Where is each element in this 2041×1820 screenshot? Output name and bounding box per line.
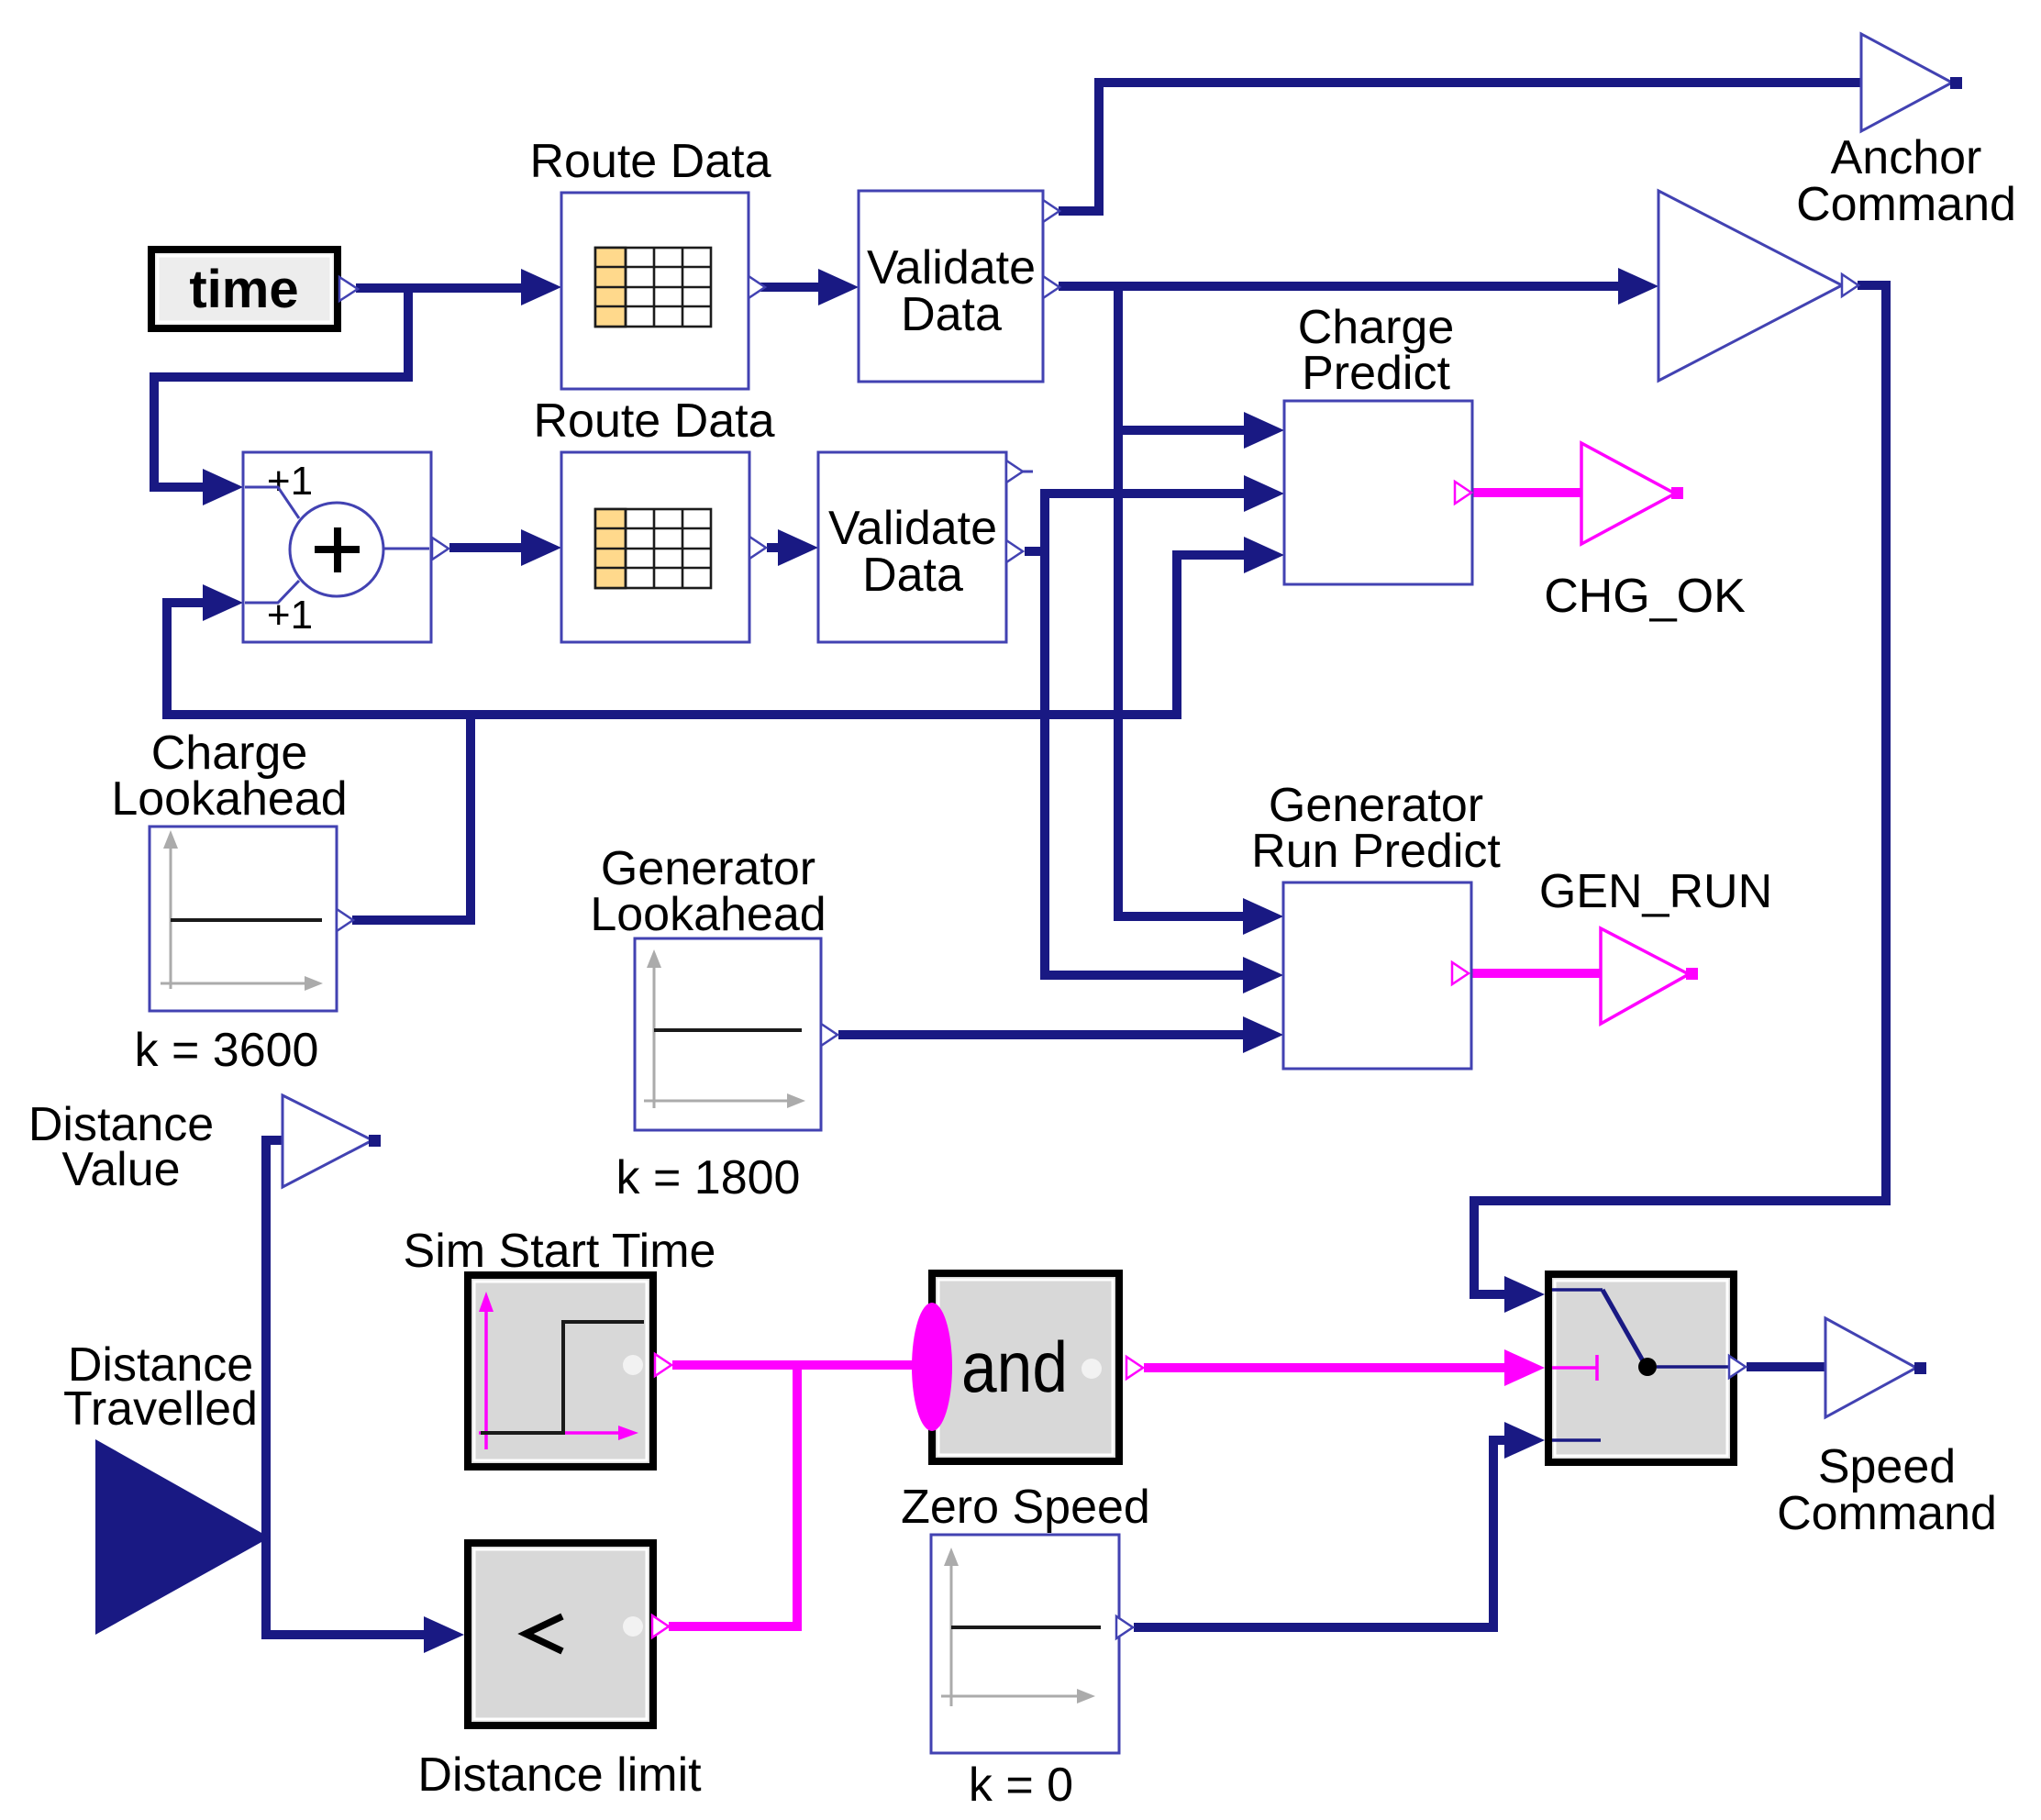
wire Generator Run Predict output to GEN_RUN (1471, 969, 1601, 978)
svg-text:Validate: Validate (828, 502, 997, 555)
port Charge Predict output (1455, 482, 1471, 504)
svg-text:+1: +1 (267, 593, 313, 638)
svg-text:Lookahead: Lookahead (111, 772, 347, 826)
port Validate Data 2 output A unconnected stub (1006, 461, 1033, 483)
wire switch to Speed Command (1747, 1362, 1825, 1371)
block less-than (Distance limit) (468, 1543, 653, 1726)
block Route Data 1 (lookup table) (561, 193, 749, 389)
svg-text:k = 0: k = 0 (969, 1759, 1073, 1812)
arrow into Validate Data 2 (778, 529, 818, 566)
port switch output (1729, 1356, 1746, 1378)
port Zero Speed output (1116, 1616, 1133, 1638)
arrow into Generator Run Predict input 2 (1243, 957, 1283, 993)
block Charge Predict (1284, 401, 1472, 584)
port time output (339, 277, 358, 301)
output triangle GEN_RUN (1601, 928, 1698, 1024)
svg-text:Data: Data (862, 549, 963, 602)
svg-text:Sim Start Time: Sim Start Time (404, 1225, 716, 1278)
block sum (243, 452, 431, 642)
wire up to Charge Predict input 2 (1045, 494, 1248, 551)
svg-text:Speed: Speed (1818, 1440, 1956, 1493)
wire Charge Lookahead output up to feedback (352, 715, 471, 920)
svg-text:Distance limit: Distance limit (417, 1748, 702, 1802)
wire Validate Data 1 port A to Anchor Command (1059, 83, 1861, 211)
port Validate Data 2 output B (1006, 540, 1023, 562)
port Sim Start Time output (655, 1354, 671, 1376)
arrow into Generator Run Predict input 3 (1243, 1016, 1283, 1053)
output triangle Speed Command (1825, 1318, 1926, 1417)
svg-text:Zero Speed: Zero Speed (901, 1481, 1150, 1534)
wire long feedback from Charge Lookahead to sum input 2 and Charge Predict input 3 (167, 555, 1248, 715)
wire Charge Predict output to CHG_OK (1473, 488, 1581, 497)
wire branch to Charge Predict input 1 (1118, 426, 1248, 435)
wire vertical from junction to Generator Run Predict input 1 (1118, 286, 1247, 916)
wire sum to Route Data 2 (449, 543, 525, 552)
svg-text:Anchor: Anchor (1831, 131, 1982, 184)
wire Route Data 1 to Validate Data 1 (760, 283, 822, 292)
svg-text:Predict: Predict (1302, 347, 1450, 400)
port Validate Data 1 output B (1043, 276, 1059, 298)
arrow into Validate Data 1 (818, 269, 859, 305)
output triangle Anchor Command (1861, 34, 1962, 131)
arrow into Charge Predict input 1 (1244, 412, 1284, 449)
svg-text:Route Data: Route Data (533, 394, 774, 448)
wire Sim Start Time output to and block (672, 1360, 928, 1370)
svg-text:k = 3600: k = 3600 (135, 1024, 319, 1077)
wire less-than output up joining junction (669, 1365, 797, 1626)
wire Distance Travelled down to less-than input (266, 1537, 427, 1635)
block Charge Lookahead (constant graph) (150, 827, 337, 1011)
block switch (1548, 1274, 1734, 1462)
block time (Inport) (151, 250, 338, 328)
arrow magenta into switch input 2 (1504, 1349, 1545, 1386)
block and (logical operator) (912, 1273, 1119, 1461)
svg-text:Run Predict: Run Predict (1251, 825, 1501, 878)
svg-text:GEN_RUN: GEN_RUN (1539, 865, 1772, 918)
port Generator Lookahead output (821, 1024, 837, 1046)
port Route Data 2 output (749, 537, 766, 559)
arrow into Route Data 1 (521, 269, 561, 305)
wire Route Data 2 to Validate Data 2 (767, 543, 782, 552)
block Generator Run Predict (1283, 882, 1471, 1069)
wire Generator Lookahead to Generator Run Predict input 3 (838, 1030, 1247, 1039)
block Validate Data 2 (818, 452, 1006, 642)
svg-text:CHG_OK: CHG_OK (1544, 570, 1746, 623)
svg-text:k = 1800: k = 1800 (616, 1151, 801, 1204)
wire Distance Travelled up to Distance Value (266, 1140, 283, 1537)
block Generator Lookahead (constant graph) (635, 938, 821, 1130)
arrow into Route Data 2 (521, 529, 561, 566)
port Generator Run Predict output (1452, 962, 1469, 984)
arrow into Generator Run Predict input 1 (1243, 898, 1283, 935)
arrow into Charge Predict input 2 (1244, 475, 1284, 512)
svg-text:and: and (961, 1326, 1068, 1407)
block Validate Data 1 (859, 191, 1043, 382)
svg-text:Command: Command (1777, 1487, 1997, 1540)
arrow into Charge Predict input 3 (1244, 537, 1284, 573)
output triangle Distance Value (283, 1095, 381, 1187)
block Zero Speed (constant graph) (931, 1535, 1119, 1753)
port Route Data 1 output (749, 276, 765, 298)
port gain output (1842, 274, 1858, 296)
svg-text:Travelled: Travelled (63, 1382, 258, 1436)
svg-text:Command: Command (1796, 178, 2016, 231)
input triangle Distance Travelled (filled) (95, 1439, 270, 1635)
wire Zero Speed to switch input 3 (1134, 1440, 1508, 1627)
wire down to Generator Run Predict input 2 (1045, 551, 1247, 975)
wire gain output down and into switch input 1 (1474, 285, 1886, 1294)
port sum output (432, 538, 449, 560)
svg-text:+1: +1 (267, 459, 313, 504)
arrow into switch input 1 (1504, 1276, 1545, 1313)
svg-text:Value: Value (61, 1143, 180, 1196)
svg-text:Validate: Validate (867, 241, 1036, 294)
port Validate Data 1 output A (1043, 200, 1059, 222)
wire time to Route Data 1 (356, 283, 525, 293)
wire Validate Data 1 port B to gain triangle (1059, 282, 1622, 291)
port and output (1126, 1357, 1143, 1379)
wire Validate Data 2 port B junction (1025, 547, 1045, 556)
svg-text:Data: Data (901, 288, 1002, 341)
arrow into less-than (424, 1616, 464, 1653)
arrow into sum input 2 (203, 584, 243, 621)
svg-text:time: time (189, 260, 298, 319)
port Charge Lookahead output (337, 909, 353, 931)
arrow into gain (1618, 268, 1658, 305)
arrow into sum input 1 (203, 469, 243, 505)
block Sim Start Time (step) (468, 1275, 653, 1467)
ARROWHEADS navy (203, 268, 1658, 1653)
output triangle CHG_OK (1581, 443, 1683, 544)
gain triangle (Anchor path) (1658, 191, 1842, 381)
wire and block to switch input 2 (1144, 1363, 1508, 1372)
block Route Data 2 (lookup table) (561, 452, 749, 642)
arrow into switch input 3 (1504, 1422, 1545, 1459)
port less-than output (652, 1615, 669, 1637)
wire branch time down to sum input 1 (154, 288, 408, 487)
svg-text:Route Data: Route Data (529, 135, 771, 188)
svg-text:Lookahead: Lookahead (590, 888, 826, 941)
